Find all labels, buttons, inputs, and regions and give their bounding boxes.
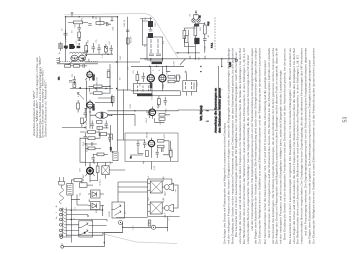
resistor R26 vertical <box>81 118 84 127</box>
tube V7 output dark <box>87 168 94 175</box>
svg-text:R30: R30 <box>130 103 132 108</box>
phono jack J2 <box>119 221 123 225</box>
svg-text:40: 40 <box>208 34 210 37</box>
capacitor C17 <box>105 121 108 129</box>
antenna input comb dark <box>58 44 63 48</box>
voltage selector S1 <box>113 152 118 161</box>
capacitor C26 <box>164 97 167 106</box>
resistor R29 vertical <box>177 75 180 81</box>
svg-text:З: З <box>56 211 58 213</box>
capacitor C21 <box>69 81 72 83</box>
gang dots <box>74 58 83 59</box>
wires heater drop <box>180 59 222 67</box>
lamp top wires <box>194 11 199 19</box>
junction dots power <box>71 209 124 243</box>
tube V2 6K4P <box>87 102 93 108</box>
rectifier D1 <box>88 190 104 198</box>
svg-text:220: 220 <box>111 146 113 150</box>
svg-text:СЦ6: СЦ6 <box>208 21 210 26</box>
note ticks <box>206 111 208 121</box>
wires second stage <box>83 111 112 129</box>
wire top bus second <box>93 17 152 19</box>
svg-text:C 100: C 100 <box>152 93 154 100</box>
svg-text:Пл: Пл <box>75 207 77 211</box>
T5 windings <box>138 86 149 92</box>
coil L4 stack dark <box>148 17 153 29</box>
resistor R11 <box>168 80 179 83</box>
svg-text:0,1: 0,1 <box>66 38 68 42</box>
resistor R33 vertical <box>77 100 80 113</box>
resistor R21 <box>83 131 99 134</box>
wire stub above bus <box>71 12 74 17</box>
agc switch arrow <box>78 92 85 99</box>
coil L1 gang ellipse left <box>71 55 78 61</box>
svg-text:53: 53 <box>343 117 349 123</box>
tube V3 6K4P <box>147 75 154 82</box>
svg-text:127: 127 <box>92 218 94 222</box>
T1 core bar <box>152 62 163 65</box>
wire y62 left <box>85 54 140 62</box>
resistor R17 vertical <box>183 31 186 39</box>
capacitor C4 <box>92 43 96 53</box>
IF transformer T5 box <box>134 84 153 94</box>
svg-text:570: 570 <box>80 168 82 172</box>
tube V6 electrodes <box>149 138 153 150</box>
svg-text:C5: C5 <box>96 39 98 43</box>
svg-text:L2: L2 <box>102 54 104 57</box>
svg-text:6,8: 6,8 <box>163 40 165 44</box>
resistor R14 dark vertical <box>194 38 199 44</box>
svg-text:2: 2 <box>153 69 155 71</box>
svg-text:30: 30 <box>71 30 73 33</box>
coil core bar L5 <box>148 33 153 38</box>
svg-text:R12: R12 <box>166 108 168 113</box>
svg-text:Пр 2А: Пр 2А <box>66 185 69 192</box>
capacitor C5 <box>73 76 77 85</box>
svg-text:C50 20,0: C50 20,0 <box>87 142 89 152</box>
dashed vertical <box>214 18 216 51</box>
tube V1 electrodes <box>85 70 94 81</box>
junction dots input <box>65 16 118 56</box>
tube V2 electrodes <box>86 100 95 112</box>
svg-text:Гр1: Гр1 <box>148 175 150 179</box>
svg-text:R17: R17 <box>200 26 202 31</box>
terminal heater <box>235 59 237 61</box>
ladder rungs <box>116 182 148 218</box>
svg-text:C6 15: C6 15 <box>100 19 102 26</box>
wire x123 upper <box>122 96 124 111</box>
wire x110 riser <box>98 64 112 98</box>
wire y63.8 <box>57 63 98 65</box>
coil L2 windings <box>79 57 85 61</box>
wires lamp circuit <box>184 22 204 53</box>
wires af output <box>85 162 125 182</box>
svg-text:R22 470: R22 470 <box>86 120 88 129</box>
resistor R2b vertical <box>105 44 108 54</box>
terminal t3 <box>60 218 63 221</box>
resistor R4 <box>89 85 108 88</box>
svg-text:560: 560 <box>113 26 115 30</box>
gang dashed link <box>60 61 98 63</box>
T5 core bar <box>137 94 153 96</box>
wires af top <box>80 132 113 166</box>
wire heater bus y59 <box>140 58 236 60</box>
unit box dashed <box>125 133 178 162</box>
coil L1 windings <box>72 57 78 61</box>
oscillator oval coil L3 <box>96 112 108 118</box>
resistor R27 <box>96 22 108 25</box>
capacitor C6 <box>91 121 94 130</box>
resistor R28 vertical <box>107 72 110 78</box>
svg-text:1ГД9: 1ГД9 <box>163 197 165 203</box>
EXTRA VALUE LABELS <box>72 19 224 230</box>
svg-text:Schema Electrique du "Minsk-M5: Schema Electrique du "Minsk-M57". <box>44 79 48 137</box>
terminal t2 <box>60 213 63 216</box>
heater risers tubes <box>151 59 163 62</box>
svg-text:6Н2П: 6Н2П <box>158 102 160 108</box>
svg-text:L6: L6 <box>145 17 147 20</box>
wire ticks clutter <box>70 57 218 238</box>
rectifier D2 <box>88 202 104 210</box>
svg-text:Зв: Зв <box>56 216 58 219</box>
dark dot switch <box>84 232 86 234</box>
terminal strip hatched <box>63 208 66 237</box>
capacitor C12 <box>156 149 159 159</box>
svg-text:С 68: С 68 <box>174 61 176 66</box>
capacitor C2 <box>64 30 68 39</box>
wire y114 <box>108 115 136 126</box>
tube V3 electrodes <box>148 72 153 86</box>
junction dots mixer <box>86 86 111 90</box>
svg-text:Л2: Л2 <box>199 15 201 18</box>
capacitor C24 <box>92 154 95 163</box>
wire y53 right <box>176 52 201 54</box>
wires IF chain <box>151 66 171 91</box>
wire riser x127 <box>127 17 129 91</box>
wire x110 mid <box>111 125 113 152</box>
svg-text:C30: C30 <box>171 148 173 153</box>
svg-text:1ГД9: 1ГД9 <box>163 176 165 182</box>
wires detector <box>146 112 170 122</box>
wire y127 left <box>62 127 85 129</box>
junction dots row <box>79 16 222 111</box>
resistor R36 <box>85 147 101 150</box>
resistor R16 vertical <box>203 25 206 34</box>
svg-text:СВ: СВ <box>75 24 77 28</box>
capacitor C10 <box>203 34 207 45</box>
svg-text:а: а <box>222 88 224 90</box>
svg-text:Wt, В(ом): Wt, В(ом) <box>200 105 203 120</box>
resistor R10 <box>168 76 175 79</box>
svg-text:R24: R24 <box>94 159 96 164</box>
svg-text:С2: С2 <box>199 56 201 60</box>
pilot lamp H2 <box>197 19 200 22</box>
svg-text:Л1: Л1 <box>189 13 191 16</box>
switch box S2 <box>79 221 93 237</box>
tube V4 hatch <box>161 76 163 81</box>
svg-text:R 5,1: R 5,1 <box>212 42 214 48</box>
trimmer cluster <box>97 44 107 54</box>
capacitor C7 <box>149 30 153 32</box>
svg-text:6И1П: 6И1П <box>92 74 96 81</box>
svg-text:10: 10 <box>62 28 64 31</box>
tuning arrow <box>68 51 88 65</box>
output transformer T3 <box>102 166 109 175</box>
resistor R31 <box>88 137 100 140</box>
capacitor C19 <box>106 22 111 26</box>
junction dots stage2 <box>85 108 113 116</box>
svg-text:3: 3 <box>159 69 161 71</box>
svg-text:Тр1: Тр1 <box>80 192 82 196</box>
svg-text:А: А <box>55 205 58 207</box>
wire riser B <box>122 89 124 140</box>
tube V3 hatch <box>150 76 152 81</box>
transformer T6 primary <box>67 184 73 196</box>
svg-text:Тр2: Тр2 <box>110 160 112 164</box>
svg-text:R6 1,0: R6 1,0 <box>97 84 99 91</box>
wires jack <box>123 223 168 227</box>
fuse box F1 <box>80 183 94 188</box>
resistor R9 vertical <box>136 71 139 84</box>
svg-text:Зч: Зч <box>131 156 133 158</box>
resistor R37 <box>93 153 108 156</box>
wire ground run <box>63 233 123 247</box>
resistor R2 <box>78 32 81 41</box>
resistor R15 vertical <box>194 26 197 36</box>
svg-text:согл: согл <box>133 225 135 230</box>
resistor R1 <box>68 21 88 24</box>
svg-text:см: см <box>175 189 177 192</box>
svg-text:Ф2: Ф2 <box>179 75 182 79</box>
svg-text:АБ: АБ <box>88 198 91 201</box>
svg-text:В2: В2 <box>125 211 127 214</box>
svg-text:Гр2: Гр2 <box>148 196 150 200</box>
mains plug P1 <box>58 177 65 204</box>
terminal t6 <box>60 234 63 237</box>
wires power extra <box>66 194 103 235</box>
capacitor C20 <box>78 39 81 41</box>
wire x170 down <box>170 141 172 151</box>
svg-text:R1: R1 <box>82 17 84 21</box>
resistor R19 <box>158 145 165 148</box>
resistor R7 <box>97 121 103 124</box>
svg-text:0,25: 0,25 <box>154 165 156 170</box>
capacitor C22 <box>108 134 111 142</box>
svg-text:Ф1: Ф1 <box>144 43 147 47</box>
wire y90 stub <box>117 89 131 91</box>
T2 windings <box>186 82 195 90</box>
resistor R20 vertical <box>146 151 149 157</box>
svg-text:КВ: КВ <box>89 58 91 61</box>
wire comb <box>60 42 62 51</box>
wire x86 down <box>85 89 87 122</box>
capacitor C4b <box>110 45 113 54</box>
svg-text:C25: C25 <box>197 82 199 87</box>
svg-text:ГД-9: ГД-9 <box>165 212 167 217</box>
resistor R6 vertical <box>73 83 76 88</box>
junction dot y127 <box>84 102 112 128</box>
capacitor C1 <box>78 24 81 32</box>
tube V7 inner fill <box>88 169 91 172</box>
wires T2 <box>187 72 192 95</box>
speaker field box T5 <box>150 202 162 214</box>
switch contact S2a <box>78 223 93 228</box>
fold crease bottom <box>102 234 177 244</box>
svg-text:6,8: 6,8 <box>109 41 111 45</box>
tube V5 electrodes <box>150 107 155 119</box>
phono jack J1 <box>151 225 155 229</box>
svg-text:50: 50 <box>120 77 122 80</box>
resistor R24 <box>71 179 82 182</box>
tube V6 6N2P <box>148 140 154 146</box>
DESCRIPTION TEXT BLOCK right <box>223 48 316 244</box>
resistor R35 vertical <box>148 220 151 226</box>
wire power riser <box>71 180 82 243</box>
capacitor C15 <box>126 30 129 32</box>
capacitor C3 dark electrolytic <box>69 44 74 49</box>
terminal t4 <box>60 224 63 227</box>
wires pickup extra <box>138 148 163 154</box>
svg-text:Шт: Шт <box>149 221 151 224</box>
switch contact S3 <box>112 202 125 218</box>
tube V1 6I1P <box>87 72 93 78</box>
coil upper winding row <box>70 52 85 54</box>
svg-text:Др: Др <box>185 70 187 73</box>
junction dots af <box>85 133 114 152</box>
coil L2 gang ellipse right <box>78 55 85 61</box>
bus stubs <box>96 17 114 22</box>
svg-text:C40: C40 <box>120 55 122 60</box>
svg-text:6Н2П: 6Н2П <box>146 132 148 138</box>
wire y110 right <box>108 66 219 111</box>
resistor R18 <box>158 140 170 143</box>
ground terminal <box>60 236 64 249</box>
wire main riser A <box>117 17 119 151</box>
svg-text:R20: R20 <box>164 133 166 138</box>
resistor R5 <box>90 92 107 95</box>
IF transformer T2 box <box>183 80 197 91</box>
svg-text:R2 1М: R2 1М <box>131 36 133 43</box>
svg-text:C40 20: C40 20 <box>124 19 126 27</box>
tube V4 6K4P <box>159 75 166 82</box>
wire mid bus y88 <box>70 88 113 90</box>
heater stubs <box>190 53 205 59</box>
dark marks row <box>64 46 80 49</box>
svg-text:Ад: Ад <box>142 160 145 163</box>
svg-text:R3: R3 <box>88 39 90 43</box>
terminal t1 <box>60 209 63 212</box>
resistor R12 <box>159 114 165 117</box>
wire af extra <box>80 134 100 145</box>
resistor R25 vertical <box>126 38 129 44</box>
wire top bus <box>66 17 118 44</box>
loudspeaker SP2 <box>164 204 173 211</box>
svg-text:МА: МА <box>58 76 61 80</box>
svg-text:6К4П: 6К4П <box>150 82 153 88</box>
svg-text:1М: 1М <box>176 76 178 79</box>
resistor R32 vertical <box>169 151 172 162</box>
svg-text:R5 220: R5 220 <box>97 76 99 84</box>
capacitor C23 <box>137 140 140 149</box>
resistor R8 <box>97 127 109 130</box>
svg-text:R14: R14 <box>146 118 148 123</box>
wire tube V1 links <box>87 81 111 94</box>
antenna terminal marks <box>57 57 60 63</box>
switch contact S2b <box>78 230 93 235</box>
wires pickup box <box>117 140 169 170</box>
wire y102 <box>95 95 112 103</box>
terminal t5 <box>60 229 63 232</box>
svg-text:6П14П: 6П14П <box>83 174 85 181</box>
COMPONENT VALUE LABELS <box>55 13 217 224</box>
capacitor C11 <box>143 140 147 149</box>
svg-text:Ф1: Ф1 <box>144 57 147 61</box>
capacitor C16 <box>84 110 87 118</box>
svg-text:Beim Empfang der Sender mit de: Beim Empfang der Sender mit der eingebau… <box>283 48 287 240</box>
wires power <box>61 205 123 233</box>
svg-text:den Elektroden wurden gemes: den Elektroden wurden gemes <box>217 87 221 133</box>
svg-text:0,05: 0,05 <box>78 92 80 97</box>
wires speakers <box>148 179 180 231</box>
resistor R13 <box>159 118 165 121</box>
resistor R38 vertical <box>158 96 161 108</box>
svg-text:0,1: 0,1 <box>133 70 135 74</box>
pilot lamp H1 <box>192 19 195 22</box>
wire left riser <box>65 44 67 62</box>
svg-text:А: А <box>58 52 61 54</box>
capacitor C18 <box>88 24 91 26</box>
tube V4 electrodes <box>160 72 165 86</box>
T1 windings <box>149 39 161 56</box>
svg-text:220В: 220В <box>109 211 111 217</box>
fold crease top <box>64 14 178 58</box>
capacitor C13 <box>84 133 88 142</box>
resistor R23 vertical <box>96 163 99 177</box>
svg-text:П: П <box>169 218 171 220</box>
resistor R34 vertical <box>111 97 114 107</box>
svg-text:С: С <box>74 218 76 220</box>
loudspeaker SP1 <box>164 183 173 190</box>
svg-text:Тр вых: Тр вых <box>100 178 102 186</box>
TITLE BLOCK left <box>32 56 48 138</box>
resistor R3 vertical <box>85 42 88 55</box>
svg-text:50,0: 50,0 <box>83 141 85 146</box>
tube V7 pins <box>85 165 94 178</box>
wire bus y90 <box>131 90 180 92</box>
wire riser x142 <box>142 19 148 46</box>
heater dots <box>150 58 222 59</box>
IF transformer T1 box <box>147 37 163 60</box>
svg-text:6К4П: 6К4П <box>163 83 165 89</box>
svg-text:6К4П: 6К4П <box>92 104 96 110</box>
svg-text:R23: R23 <box>99 127 101 132</box>
capacitor C8 <box>142 73 146 83</box>
comp row y65 <box>65 64 88 68</box>
svg-text:ГД-9: ГД-9 <box>165 191 167 196</box>
speaker field box T4 <box>150 181 162 193</box>
svg-text:220: 220 <box>140 82 142 86</box>
svg-text:Zur Glattung der Welligkeit di: Zur Glattung der Welligkeit dient ein Si… <box>258 48 262 244</box>
svg-text:C8: C8 <box>72 73 74 77</box>
svg-text:Zur Glattung der Welligkeit di: Zur Glattung der Welligkeit dient ein Si… <box>311 48 315 244</box>
wire bus y66 <box>131 65 184 67</box>
resistor R22 <box>99 133 113 136</box>
svg-text:6Е1П: 6Е1П <box>102 112 104 118</box>
tube V5 6N2P <box>149 109 156 116</box>
wire y95 link <box>146 91 180 96</box>
capacitor C9 <box>148 110 151 119</box>
